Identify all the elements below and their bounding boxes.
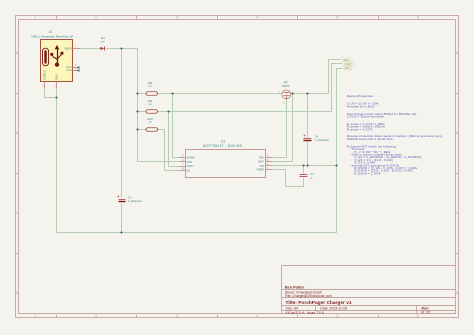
wire sense node down to SENSE pin (173, 94, 180, 158)
wire TIMER to C7 (272, 170, 304, 187)
transistor Q2 PMOS (279, 80, 295, 104)
svg-text:1N4000 seems like it would wor: 1N4000 seems like it would work. (347, 137, 394, 141)
svg-text:Title: PorchPager Charger v1: Title: PorchPager Charger v1 (286, 300, 352, 306)
svg-text:6: 6 (417, 314, 419, 318)
svg-text:C4: C4 (315, 134, 319, 138)
svg-text:B: B (456, 131, 458, 135)
svg-text:Date: 2023-12-28: Date: 2023-12-28 (320, 307, 347, 311)
junction: C1 bottom at GND rail (120, 231, 122, 233)
svg-text:USB_C_Receptacle_PowerOnly_6P: USB_C_Receptacle_PowerOnly_6P (31, 34, 73, 38)
pin TIMER (266, 169, 272, 171)
note: design notes text block (347, 94, 443, 175)
junction: VBUS_P at R8 (136, 92, 138, 94)
svg-text:VBUS: VBUS (64, 47, 72, 51)
junction: GND row at GND vertical (335, 164, 337, 166)
pin SENSE (180, 157, 186, 159)
pin VBAT (266, 161, 272, 163)
junction: C7 top at GND row (302, 164, 304, 166)
pin STAT1 (180, 166, 186, 168)
wire R10 row to EN pin (138, 130, 180, 171)
svg-text:C_Polarized: C_Polarized (128, 199, 142, 203)
IC U1 MCP73841 charge controller (180, 139, 272, 177)
pin VSS (266, 165, 272, 167)
svg-text:D4: D4 (101, 36, 105, 40)
wire C1 branch down from VBUS_P node (121, 49, 123, 233)
hierarchical label GND (342, 66, 352, 70)
no-connect X on CC1 (78, 67, 80, 69)
svg-text:EN: EN (187, 169, 191, 172)
junction: SHIELD joins GND (55, 96, 57, 98)
capacitor C7 (timer) (300, 172, 315, 180)
wire Q2 gate down to DRV pin (272, 99, 287, 158)
wire R8 row / sense node to Q2 source (138, 93, 283, 95)
svg-text:GND: GND (55, 74, 59, 80)
pin VBUS (73, 48, 81, 50)
title block (decorative) (282, 266, 456, 315)
wire VBUS_P: diode cathode to main vertical, down to VDD (106, 49, 180, 162)
junction: C4 top at drain line (306, 92, 308, 94)
pin VDD (180, 161, 186, 163)
junction: VBUS_P at R9 (136, 110, 138, 112)
wire Q2 drain to OUT label (291, 60, 341, 94)
wire VSS/GND row from U1 to GND vertical (272, 165, 337, 167)
svg-text:V_FCS = 110mV [nominal]: V_FCS = 110mV [nominal] (347, 115, 384, 119)
wire C4 branch (307, 94, 309, 166)
capacitor C1 (input, polarized) (118, 195, 143, 203)
svg-text:Desired Properties: Desired Properties (347, 94, 374, 98)
svg-text:R9: R9 (148, 99, 152, 103)
svg-text:6: 6 (417, 16, 419, 20)
svg-text:CC2: CC2 (66, 68, 72, 72)
pin DRV (266, 157, 272, 159)
svg-text:B: B (16, 131, 18, 135)
svg-text:2: 2 (95, 314, 97, 318)
svg-text:1: 1 (35, 314, 37, 318)
svg-text:MCP73841T - 840I/MS: MCP73841T - 840I/MS (203, 144, 242, 148)
pin CC2 (73, 70, 79, 72)
svg-text:C: C (310, 176, 312, 180)
svg-text:DRV: DRV (259, 156, 264, 159)
svg-text:File: ChargingCircuit.kicad_sc: File: ChargingCircuit.kicad_sch (285, 294, 332, 298)
wire C7 top to GND row (303, 166, 305, 174)
svg-text:Q2: Q2 (284, 80, 288, 84)
svg-text:R10: R10 (147, 117, 153, 121)
svg-text:Provided by V_BUS.: Provided by V_BUS. (347, 104, 376, 108)
svg-text:4: 4 (256, 314, 258, 318)
wire VBAT pin up to drain node (272, 94, 293, 162)
svg-text:0.137: 0.137 (148, 86, 153, 88)
junction: VBUS node at C1 branch (120, 47, 122, 49)
pin SHIELD (44, 82, 46, 89)
svg-text:R_sense = 0.1375: R_sense = 0.1375 (347, 127, 373, 131)
svg-text:VBAT: VBAT (343, 59, 350, 62)
wire GND net: label down right side and bottom rail (57, 69, 343, 233)
svg-text:TIMER: TIMER (257, 169, 265, 172)
svg-text:R8: R8 (148, 81, 152, 85)
svg-text:5: 5 (337, 314, 339, 318)
svg-text:Ben Potter: Ben Potter (285, 285, 305, 289)
wire R9 row: STAT net to label VSTAT (138, 64, 343, 112)
pin EN (180, 170, 186, 172)
svg-text:KiCad E.D.A. kicad 7.0.9: KiCad E.D.A. kicad 7.0.9 (286, 311, 324, 315)
junction: VBUS_P at R10 (136, 128, 138, 130)
junction: STAT node (167, 110, 169, 112)
svg-text:SENSE: SENSE (187, 156, 196, 159)
svg-text:VBAT: VBAT (258, 161, 265, 164)
pin GND (56, 82, 58, 89)
wire VBUS: USB to diode (81, 48, 101, 50)
svg-text:PMOS: PMOS (282, 85, 289, 88)
svg-text:STAT1: STAT1 (187, 165, 195, 168)
pin CC1 (73, 67, 79, 69)
svg-text:SHIELD: SHIELD (43, 70, 47, 80)
svg-text:3: 3 (176, 16, 178, 20)
capacitor C4 (output, polarized) (304, 134, 330, 142)
junction: sense node (171, 92, 173, 94)
svg-text:1N4?: 1N4? (101, 41, 105, 43)
svg-text:VSS: VSS (259, 165, 264, 168)
resistor R10 (EN pull-up) (146, 117, 158, 131)
hierarchical label VBAT (node OUT) (341, 58, 352, 62)
wire USB SHIELD and GND pins to bottom rail (45, 89, 57, 233)
hierarchical label VSTAT (342, 62, 354, 66)
svg-text:Size: A4: Size: A4 (286, 307, 299, 311)
svg-text:Id: 2/2: Id: 2/2 (421, 311, 431, 315)
junction: C4 bottom at GND row (306, 164, 308, 166)
wire STAT node down to STAT1 pin (169, 112, 180, 167)
diode D4 (100, 36, 105, 51)
no-connect X on CC2 (78, 70, 80, 72)
svg-text:GND: GND (344, 67, 350, 70)
svg-text:C1: C1 (128, 195, 132, 199)
connector J4 USB_C_Receptacle_PowerOnly_6P (31, 30, 81, 88)
svg-text:R_DSON = 2.7878: R_DSON = 2.7878 (347, 171, 381, 175)
resistor R8 (sense) (146, 81, 158, 95)
svg-text:U1: U1 (221, 139, 225, 143)
junction: VBAT at Q2 drain (291, 92, 293, 94)
svg-text:VDD: VDD (187, 161, 192, 164)
svg-text:C_Polarized: C_Polarized (315, 138, 329, 142)
svg-text:1: 1 (35, 16, 37, 20)
svg-text:5: 5 (337, 16, 339, 20)
svg-text:VSTAT: VSTAT (344, 63, 352, 66)
svg-text:4: 4 (256, 16, 258, 20)
resistor R9 (STAT pull-up) (146, 99, 158, 113)
svg-text:3: 3 (176, 314, 178, 318)
svg-text:2: 2 (95, 16, 97, 20)
